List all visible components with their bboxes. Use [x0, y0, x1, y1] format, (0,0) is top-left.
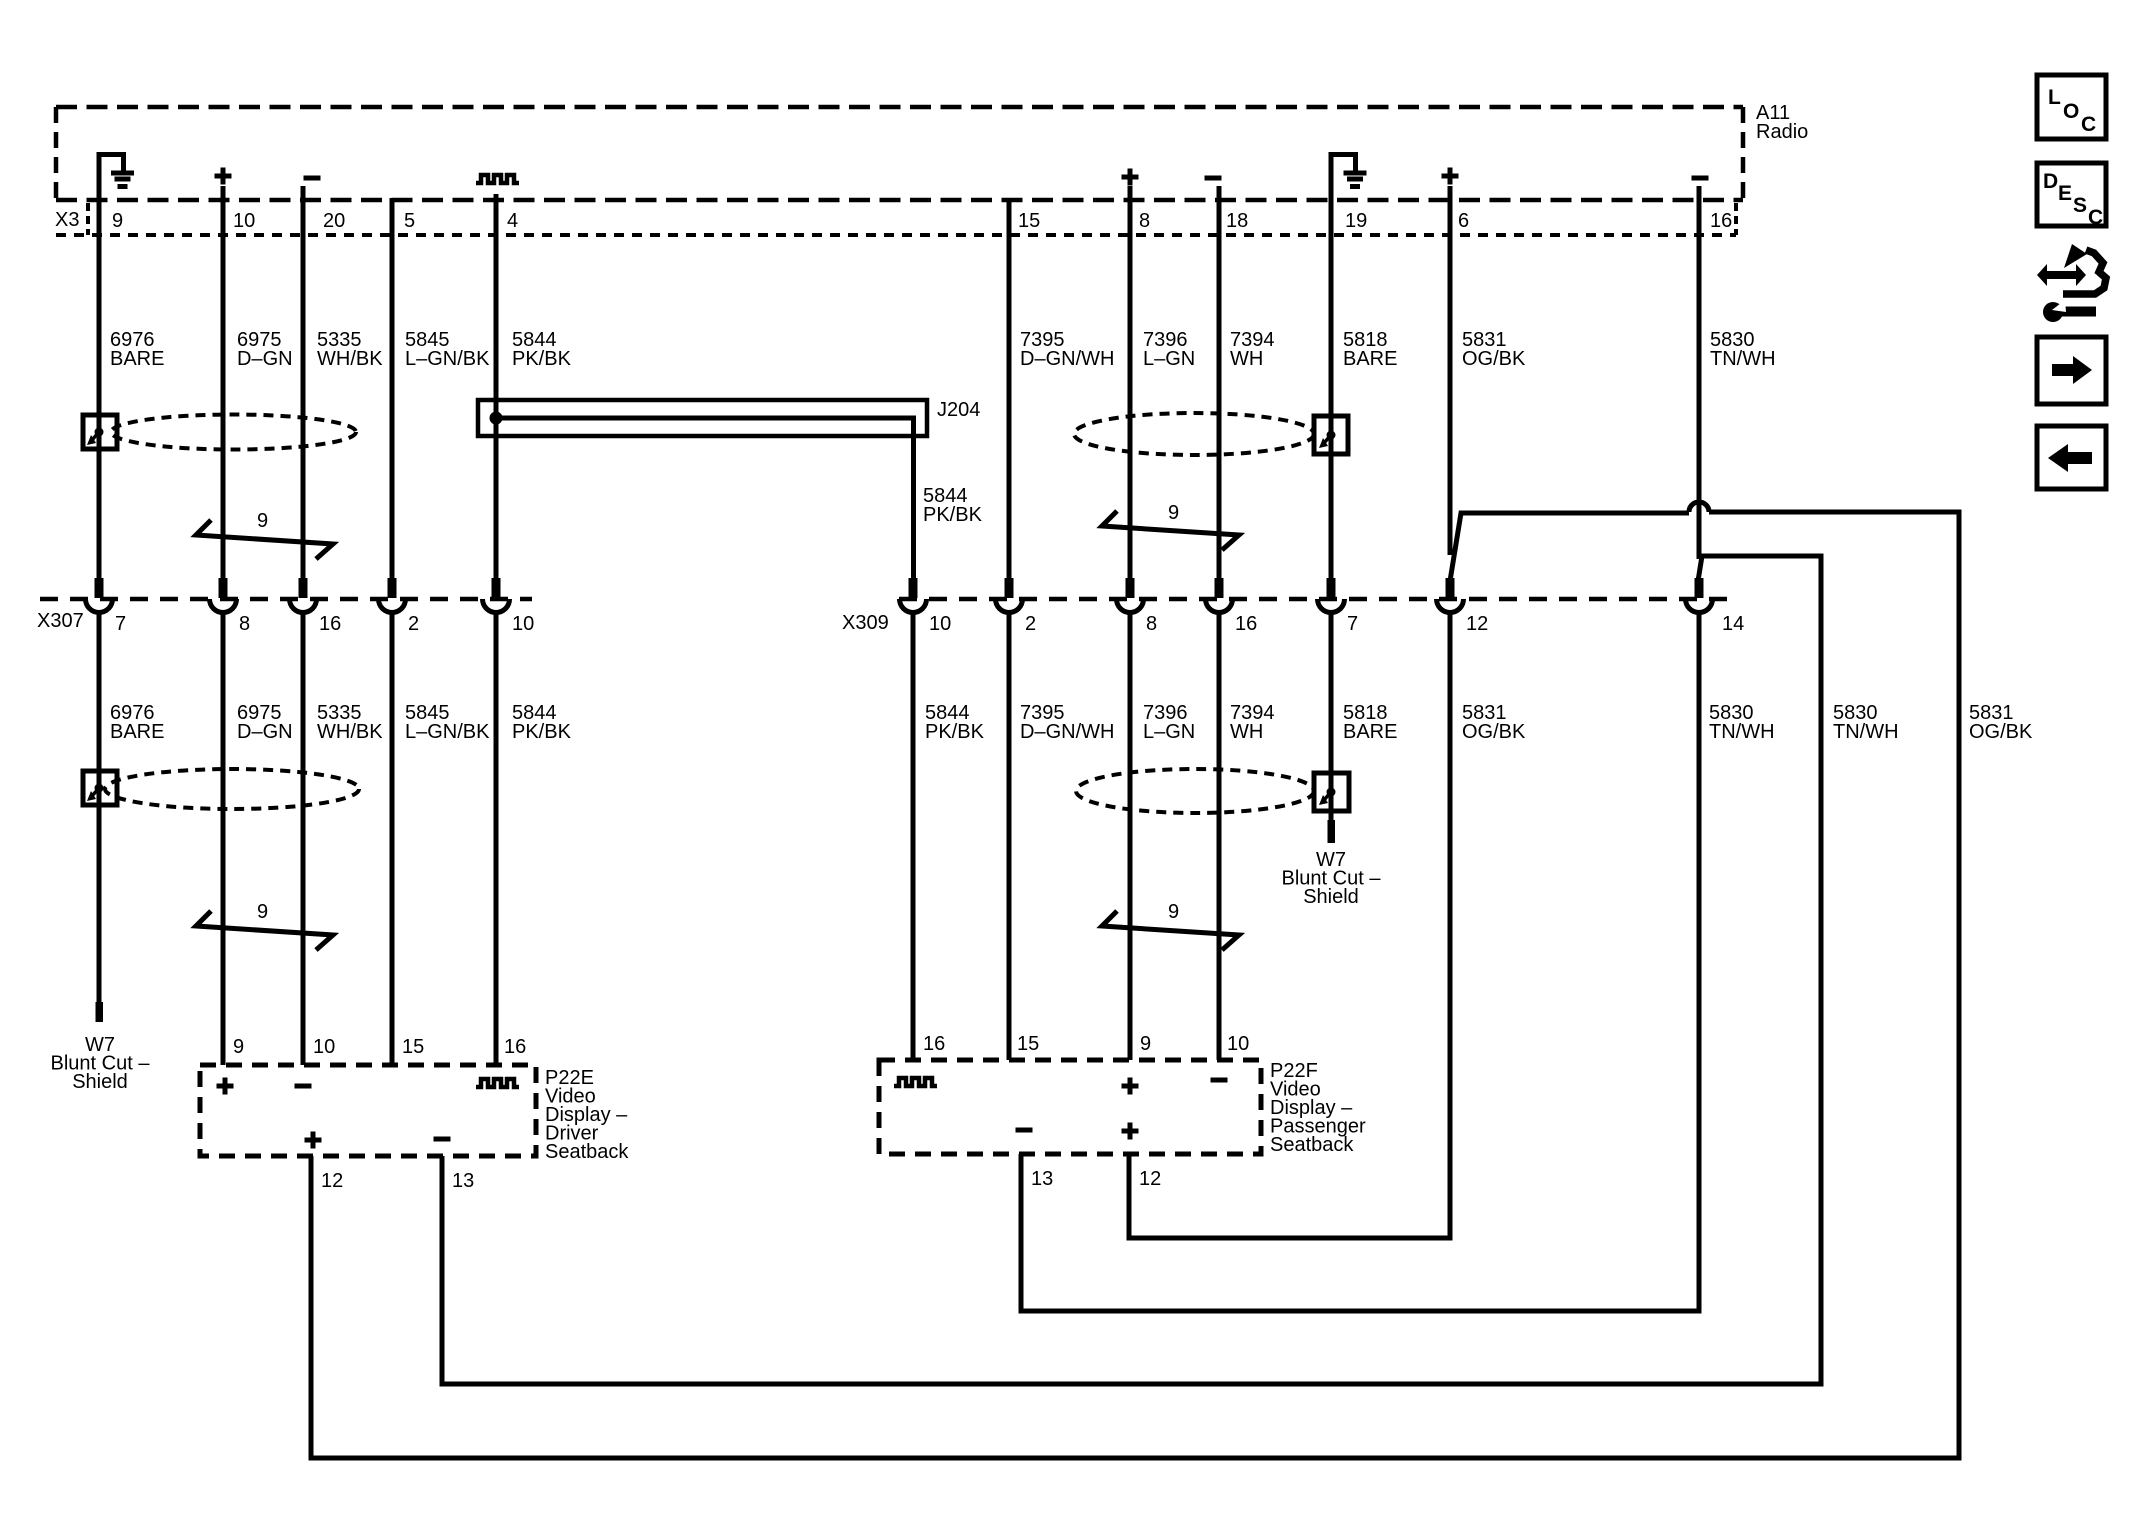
connector X309 pin 10 socket — [900, 599, 952, 635]
legend icon LOC — [2037, 75, 2106, 139]
svg-text:D–GN/WH: D–GN/WH — [1020, 348, 1114, 370]
connector P22F pin 15 number — [1017, 1033, 1039, 1055]
svg-text:WH: WH — [1230, 721, 1263, 743]
label circuit 6976 BARE (upper run) — [110, 329, 164, 370]
svg-text:16: 16 — [923, 1033, 945, 1055]
connector X309 pin 2 socket — [995, 599, 1036, 635]
connector P22E pin 10 number — [313, 1036, 335, 1058]
svg-text:9: 9 — [1168, 502, 1179, 524]
svg-text:OG/BK: OG/BK — [1462, 721, 1526, 743]
connector X309 (dotted connector line) — [842, 599, 1736, 634]
wire 7396 L-GN (X3-8 to X309-8) — [1126, 186, 1135, 598]
svg-text:PK/BK: PK/BK — [512, 721, 572, 743]
wire 5831 OG/BK (horizontal run to right then down to P22E pin 12) — [311, 512, 1959, 1458]
wire 5845 L-GN/BK (X3-5 to X307-2) — [388, 198, 397, 598]
label circuit 7395 D–GN/WH (upper run) — [1020, 329, 1114, 370]
wire 7394 WH (X309-16 to P22F-10) — [1217, 610, 1222, 1060]
connector X307 pin 16 socket — [290, 599, 342, 635]
connector P22E pin 16 number — [504, 1036, 526, 1058]
svg-text:PK/BK: PK/BK — [923, 504, 983, 526]
wire 5818 BARE (below X309-7, to W7 blunt cut) — [1328, 610, 1336, 843]
shield grouping ellipse (upper left) — [111, 415, 356, 450]
wire 6975 D-GN (X3-10 to X307-8) — [219, 186, 228, 598]
shield termination (lower right, 5818) — [1314, 773, 1349, 811]
svg-text:15: 15 — [402, 1036, 424, 1058]
node W7 Blunt Cut - Shield (left) — [51, 1034, 151, 1093]
plus symbol (P22F pin 9) — [1122, 1078, 1139, 1095]
plus symbol (P22E pin 9) — [217, 1078, 234, 1095]
wire 7396 L-GN (X309-8 to P22F-9) — [1128, 610, 1133, 1060]
plus symbol (radio pin 8) — [1122, 169, 1139, 186]
plus symbol (radio pin 10) — [215, 168, 232, 185]
legend icon vehicle with arrows and wrench — [2037, 244, 2106, 322]
svg-text:20: 20 — [323, 210, 345, 232]
ground symbol (radio pin 9) — [97, 155, 134, 187]
label circuit 5844 PK/BK (lower run) — [512, 702, 572, 743]
svg-text:BARE: BARE — [110, 721, 164, 743]
label circuit 5335 WH/BK (lower run) — [317, 702, 383, 743]
svg-text:PK/BK: PK/BK — [925, 721, 985, 743]
svg-text:9: 9 — [233, 1036, 244, 1058]
svg-text:D–GN: D–GN — [237, 348, 293, 370]
plus symbol (P22E pin 12) — [305, 1132, 322, 1149]
connector X3 pin 18 number — [1226, 210, 1248, 232]
svg-text:9: 9 — [112, 210, 123, 232]
connector P22F pin 10 number — [1227, 1033, 1249, 1055]
label circuit 5830 TN/WH (lower run) — [1709, 702, 1775, 743]
plus symbol (P22F pin 12) — [1122, 1123, 1139, 1140]
svg-text:7: 7 — [115, 613, 126, 635]
plus symbol (radio pin 6) — [1442, 168, 1459, 185]
minus symbol (P22E pin 10) — [295, 1084, 312, 1089]
svg-text:C: C — [2088, 206, 2103, 229]
legend icon back arrow — [2037, 426, 2106, 489]
svg-text:8: 8 — [239, 613, 250, 635]
svg-text:L–GN/BK: L–GN/BK — [405, 721, 490, 743]
shield termination (upper right, 5818) — [1314, 416, 1348, 454]
svg-text:19: 19 — [1345, 210, 1367, 232]
legend icon DESC — [2037, 163, 2106, 229]
svg-text:D: D — [2043, 170, 2058, 193]
ground symbol (radio pin 19) — [1329, 155, 1367, 187]
svg-text:14: 14 — [1722, 613, 1744, 635]
svg-text:4: 4 — [507, 210, 518, 232]
connector X3 pin 4 number — [507, 210, 518, 232]
twisted-pair symbol, 9 twists (upper left) — [196, 510, 333, 559]
wire 6976 BARE (X3-9 to X307-7) — [95, 152, 104, 598]
svg-text:Seatback: Seatback — [545, 1141, 629, 1163]
svg-text:X309: X309 — [842, 612, 889, 634]
svg-text:WH: WH — [1230, 348, 1263, 370]
svg-text:Shield: Shield — [1303, 886, 1359, 908]
PWM signal symbol (P22E pin 16) — [476, 1079, 519, 1087]
twisted-pair symbol, 9 twists (upper right) — [1102, 502, 1239, 550]
label circuit 6976 BARE (lower run) — [110, 702, 164, 743]
svg-text:OG/BK: OG/BK — [1969, 721, 2033, 743]
connector X3 pin 20 number — [323, 210, 345, 232]
connector X307 pin 10 socket — [483, 599, 535, 635]
junction dot J204 — [490, 412, 503, 425]
svg-text:BARE: BARE — [110, 348, 164, 370]
wire 6975 D-GN (X307-8 to P22E-9) — [221, 610, 226, 1065]
svg-text:10: 10 — [512, 613, 534, 635]
wire 5844 PK/BK (X3-4 to X307-10 through splice J204) — [492, 194, 501, 598]
shield termination (lower left, 6976) — [83, 771, 117, 805]
splice J204 — [478, 399, 980, 436]
connector X3 pin 8 number — [1139, 210, 1150, 232]
label circuit 7394 WH (upper run) — [1230, 329, 1275, 370]
svg-text:13: 13 — [452, 1170, 474, 1192]
svg-text:13: 13 — [1031, 1168, 1053, 1190]
PWM signal symbol (radio pin 4) — [476, 175, 519, 183]
component P22E Video Display - Driver Seatback (dashed box) — [200, 1065, 629, 1163]
label circuit 6975 D–GN (lower run) — [237, 702, 293, 743]
svg-text:15: 15 — [1017, 1033, 1039, 1055]
connector X3 pin 15 number — [1018, 210, 1040, 232]
svg-text:5: 5 — [404, 210, 415, 232]
minus symbol (P22F pin 10) — [1211, 1078, 1228, 1083]
minus symbol (radio pin 16) — [1692, 176, 1709, 181]
label circuit 5831 OG/BK (lower run) — [1969, 702, 2033, 743]
label circuit 5845 L–GN/BK (upper run) — [405, 329, 490, 370]
svg-text:9: 9 — [257, 510, 268, 532]
connector X307 pin 2 socket — [379, 599, 420, 635]
wire 7395 D-GN/WH (X309-2 to P22F-15) — [1007, 610, 1012, 1060]
svg-text:2: 2 — [408, 613, 419, 635]
connector P22F pin 16 number — [923, 1033, 945, 1055]
label circuit 5844 PK/BK (lower run) — [925, 702, 985, 743]
connector X309 pin 8 socket — [1117, 599, 1158, 635]
connector X307 (dotted connector line) — [37, 599, 532, 632]
shield grouping ellipse (lower left) — [105, 769, 359, 809]
svg-text:PK/BK: PK/BK — [512, 348, 572, 370]
wire 5831 OG/BK (X309-12 down, across to P22F-12) — [1129, 610, 1450, 1238]
wire 5830 TN/WH (X309-14 down, across to P22F-13) — [1021, 610, 1699, 1311]
svg-text:J204: J204 — [937, 399, 980, 421]
label circuit 7396 L–GN (lower run) — [1143, 702, 1195, 743]
wire hop (5831 OG/BK crossing 5830 TN/WH) — [1689, 502, 1709, 512]
label 5844 PK/BK (branch) — [923, 485, 983, 526]
svg-text:6: 6 — [1458, 210, 1469, 232]
svg-text:X3: X3 — [55, 209, 79, 231]
label circuit 5844 PK/BK (upper run) — [512, 329, 572, 370]
wire 5845 L-GN/BK (X307-2 to P22E-15) — [390, 610, 395, 1065]
wire 5830 TN/WH (slant, across, down to P22E pin 13) — [442, 556, 1821, 1384]
connector X307 pin 8 socket — [210, 599, 251, 635]
svg-text:Radio: Radio — [1756, 121, 1808, 143]
label circuit 5845 L–GN/BK (lower run) — [405, 702, 490, 743]
twisted-pair symbol, 9 twists (lower left) — [196, 901, 333, 950]
svg-text:16: 16 — [1710, 210, 1732, 232]
wire 5830 TN/WH (X3-16 down to junction) — [1697, 186, 1702, 559]
wire 5335 WH/BK (X3-20 to X307-16) — [299, 186, 308, 598]
connector P22F pin 9 number — [1140, 1033, 1151, 1055]
wire 7394 WH (X3-18 to X309-16) — [1215, 186, 1224, 598]
svg-text:9: 9 — [1168, 901, 1179, 923]
minus symbol (P22E pin 13) — [434, 1137, 451, 1142]
wire 7395 D-GN/WH (X3-15 to X309-2) — [1005, 198, 1014, 598]
svg-text:D–GN/WH: D–GN/WH — [1020, 721, 1114, 743]
wire 5831 OG/BK (slant and horizontal run toward right) — [1446, 513, 1690, 598]
connector X309 pin 12 socket — [1437, 599, 1489, 635]
connector P22E pin 9 number — [233, 1036, 244, 1058]
svg-text:16: 16 — [1235, 613, 1257, 635]
twisted-pair symbol, 9 twists (lower right) — [1102, 901, 1239, 950]
label circuit 5831 OG/BK (lower run) — [1462, 702, 1526, 743]
component P22F Video Display - Passenger Seatback (dashed box) — [879, 1060, 1366, 1156]
svg-text:7: 7 — [1347, 613, 1358, 635]
label circuit 5831 OG/BK (upper run) — [1462, 329, 1526, 370]
svg-text:TN/WH: TN/WH — [1709, 721, 1775, 743]
connector P22F pin 13 number — [1031, 1168, 1053, 1190]
connector X3 pin 16 number — [1710, 210, 1732, 232]
label circuit 5830 TN/WH (lower run) — [1833, 702, 1899, 743]
wire 6976 BARE (below X307-7, to W7 blunt cut) — [96, 610, 104, 1022]
connector X3 pin 9 number — [112, 210, 123, 232]
label circuit 5818 BARE (lower run) — [1343, 702, 1397, 743]
svg-text:15: 15 — [1018, 210, 1040, 232]
connector P22F pin 12 number — [1139, 1168, 1161, 1190]
svg-text:10: 10 — [313, 1036, 335, 1058]
svg-text:16: 16 — [319, 613, 341, 635]
svg-text:L–GN: L–GN — [1143, 721, 1195, 743]
svg-text:WH/BK: WH/BK — [317, 721, 383, 743]
label circuit 7395 D–GN/WH (lower run) — [1020, 702, 1114, 743]
svg-text:8: 8 — [1139, 210, 1150, 232]
connector X3 (dotted connector line) — [55, 203, 1736, 235]
svg-text:O: O — [2063, 100, 2079, 123]
label circuit 5830 TN/WH (upper run) — [1710, 329, 1776, 370]
svg-text:12: 12 — [321, 1170, 343, 1192]
svg-text:12: 12 — [1466, 613, 1488, 635]
connector X309 pin 7 socket — [1318, 599, 1359, 635]
minus symbol (P22F pin 13) — [1016, 1128, 1033, 1133]
svg-text:L: L — [2048, 86, 2061, 109]
svg-text:C: C — [2081, 113, 2096, 136]
connector X3 pin 6 number — [1458, 210, 1469, 232]
svg-text:18: 18 — [1226, 210, 1248, 232]
svg-text:D–GN: D–GN — [237, 721, 293, 743]
connector P22E pin 12 number — [321, 1170, 343, 1192]
svg-text:Shield: Shield — [72, 1071, 128, 1093]
svg-text:S: S — [2073, 194, 2087, 217]
label circuit 6975 D–GN (upper run) — [237, 329, 293, 370]
connector X309 pin 14 socket — [1686, 599, 1745, 635]
connector X3 pin 19 number — [1345, 210, 1367, 232]
svg-text:TN/WH: TN/WH — [1833, 721, 1899, 743]
wire 5818 BARE (X3-19 to X309-7) — [1327, 152, 1336, 598]
svg-text:12: 12 — [1139, 1168, 1161, 1190]
wire 5844 PK/BK (J204 branch to X309-10) — [496, 418, 918, 598]
svg-text:16: 16 — [504, 1036, 526, 1058]
connector X307 pin 7 socket — [86, 599, 127, 635]
label circuit 7394 WH (lower run) — [1230, 702, 1275, 743]
svg-text:WH/BK: WH/BK — [317, 348, 383, 370]
shield grouping ellipse (lower right) — [1076, 769, 1314, 813]
component A11 Radio (dashed outline box) — [56, 102, 1808, 200]
connector P22E pin 13 number — [452, 1170, 474, 1192]
connector P22E pin 15 number — [402, 1036, 424, 1058]
wire 5844 PK/BK (X307-10 to P22E-16) — [494, 610, 499, 1065]
wire 5831 OG/BK (X3-6 down to junction with horizontal run) — [1448, 186, 1453, 555]
wire 5844 PK/BK (X309-10 to P22F-16) — [911, 610, 916, 1060]
svg-text:10: 10 — [929, 613, 951, 635]
svg-text:Seatback: Seatback — [1270, 1134, 1354, 1156]
connector X309 pin 16 socket — [1206, 599, 1258, 635]
svg-text:2: 2 — [1025, 613, 1036, 635]
node W7 Blunt Cut - Shield (right) — [1282, 849, 1382, 908]
svg-text:10: 10 — [1227, 1033, 1249, 1055]
shield grouping ellipse (upper right) — [1074, 413, 1314, 455]
svg-text:X307: X307 — [37, 610, 84, 632]
connector X3 pin 10 number — [233, 210, 255, 232]
label circuit 5818 BARE (upper run) — [1343, 329, 1397, 370]
label circuit 7396 L–GN (upper run) — [1143, 329, 1195, 370]
minus symbol (radio pin 18) — [1205, 176, 1222, 181]
label circuit 5335 WH/BK (upper run) — [317, 329, 383, 370]
legend icon forward arrow — [2037, 337, 2106, 404]
wire 5335 WH/BK (X307-16 to P22E-10) — [301, 610, 306, 1065]
minus symbol (radio pin 20) — [304, 176, 321, 181]
svg-text:10: 10 — [233, 210, 255, 232]
svg-text:L–GN: L–GN — [1143, 348, 1195, 370]
shield termination (upper left, 6976) — [83, 415, 117, 449]
PWM signal symbol (P22F pin 16) — [894, 1078, 937, 1086]
svg-text:OG/BK: OG/BK — [1462, 348, 1526, 370]
svg-text:BARE: BARE — [1343, 348, 1397, 370]
svg-text:L–GN/BK: L–GN/BK — [405, 348, 490, 370]
svg-text:8: 8 — [1146, 613, 1157, 635]
svg-text:TN/WH: TN/WH — [1710, 348, 1776, 370]
connector X3 pin 5 number — [404, 210, 415, 232]
svg-text:9: 9 — [257, 901, 268, 923]
svg-text:9: 9 — [1140, 1033, 1151, 1055]
svg-text:E: E — [2058, 182, 2072, 205]
svg-text:BARE: BARE — [1343, 721, 1397, 743]
